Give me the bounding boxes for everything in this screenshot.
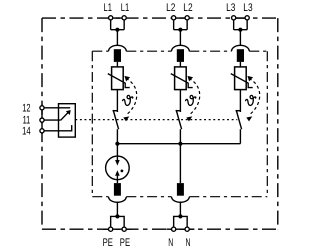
hop arc over L2 conductor on module top edge (172, 45, 190, 51)
switch S2 fixed contact tick (176, 110, 181, 112)
terminal L3 right circle (245, 16, 249, 20)
hop arc under PE conductor on module bottom edge (109, 197, 127, 203)
wire terminal 14 lead with contact riser (44, 125, 71, 131)
signalling contact box S4 (59, 104, 76, 137)
wire PE plug down to PE node (116, 202, 118, 217)
varistor R2 diagonal stroke (171, 74, 193, 88)
wire solid segment at terminals 12 11 14 (41, 105, 43, 135)
switch S4 changeover blade (61, 112, 69, 120)
terminal N right circle (185, 227, 189, 231)
svg-text:N: N (168, 237, 173, 249)
node bus junction dot at N path (178, 142, 182, 146)
label ϑ for L3 (246, 95, 256, 105)
wire PE terminal fork (111, 216, 125, 227)
terminal L1 left circle (109, 16, 113, 20)
label ϑ for L2 (186, 95, 196, 105)
terminal 11 circle (40, 118, 44, 122)
terminal PE right circle (122, 227, 126, 231)
spark gap F1 bottom electrode arrow (116, 176, 118, 180)
wire solid segment under L2 terminal pair (172, 17, 188, 19)
wire N path down from bus (179, 144, 181, 183)
svg-text:L1: L1 (121, 2, 129, 14)
thermal arc arrowhead at varistor R3 (247, 76, 253, 82)
switch S3 fixed contact tick (236, 110, 241, 112)
terminal L2 left circle (172, 16, 176, 20)
wire L2 down to module plug (179, 30, 181, 46)
wire terminal 12 lead (44, 107, 70, 109)
node L2 junction dot (178, 28, 182, 32)
node bus junction dot at L1 path (115, 142, 119, 146)
label ϑ for L1 (123, 95, 133, 105)
svg-text:L2: L2 (183, 2, 192, 14)
varistor R2 body (175, 67, 187, 90)
svg-text:12: 12 (22, 102, 30, 114)
wire N plug down to N node (179, 202, 181, 217)
outer device boundary right edge (277, 18, 279, 229)
hop arc over L1 conductor on module top edge (109, 45, 127, 51)
wire L3 down to module plug (239, 30, 241, 46)
wire switch S3 to bus (239, 129, 241, 144)
node N junction dot (178, 214, 182, 218)
wire varistor R2 to switch S2 (179, 90, 181, 112)
spark gap F1 top electrode arrow (116, 156, 118, 160)
switch S3 blade (236, 110, 241, 129)
svg-text:L1: L1 (104, 2, 112, 14)
varistor R1 body (112, 67, 124, 90)
wire L1 terminal stubs and crossbar (111, 20, 125, 30)
switch S2 blade (176, 110, 181, 129)
svg-text:PE: PE (120, 237, 130, 249)
inner module boundary right edge (266, 51, 268, 197)
mechanical linkage dotted line to thermal switches (75, 119, 237, 121)
spark gap F1 body circle (106, 156, 130, 180)
wire L1 down to module plug (116, 30, 118, 46)
inner module boundary bottom edge (92, 196, 267, 198)
inner module boundary top edge (92, 50, 267, 52)
wire plug to varistor R3 (239, 62, 241, 67)
outer device boundary bottom edge (42, 228, 278, 230)
wire solid segment under PE terminal pair (103, 228, 131, 230)
wire plug to varistor R2 (179, 62, 181, 67)
node PE junction dot (115, 214, 119, 218)
wire varistor R3 to switch S3 (239, 90, 241, 112)
thermal arc arrowhead at switch S2 (186, 116, 192, 121)
wire spark gap to PE plug (116, 180, 118, 183)
svg-text:N: N (185, 237, 190, 249)
plug contact K5 (N module plug, filled) (177, 183, 184, 196)
node L3 junction dot (238, 28, 242, 32)
wire solid segment under L1 terminal pair (109, 17, 125, 19)
outer device boundary top edge (42, 17, 278, 19)
varistor R3 body (235, 67, 247, 90)
switch S1 blade (113, 110, 118, 129)
svg-text:PE: PE (103, 237, 113, 249)
wire L2 terminal stubs and crossbar (174, 20, 188, 30)
inner module boundary left edge (91, 51, 93, 197)
switch S4 blade arrowhead (66, 110, 71, 115)
wire varistor R1 to switch S1 (116, 90, 118, 112)
wire bus down to spark gap F1 (116, 144, 118, 156)
plug contact K1 (L1 module plug, filled) (114, 49, 121, 62)
wire terminal 11 lead (44, 119, 60, 121)
svg-text:L2: L2 (166, 2, 175, 14)
varistor R3 diagonal stroke (231, 74, 253, 88)
svg-text:L3: L3 (243, 2, 252, 14)
plug contact K3 (L3 module plug, filled) (237, 49, 244, 62)
wire switch S1 to bus (116, 129, 118, 144)
wire N terminal fork (174, 216, 188, 227)
spark gap F1 gas dot (121, 170, 124, 173)
hop arc under N conductor on module bottom edge (172, 197, 190, 203)
thermal arc arrowhead at switch S3 (246, 116, 252, 121)
thermal arc arrowhead at switch S1 (123, 116, 129, 121)
thermal disconnect arc ϑ for L1 (dashed arrow) (126, 78, 137, 115)
plug contact K4 (PE module plug, filled) (114, 183, 121, 196)
wire common bus after varistors (117, 143, 240, 145)
hop arc over L3 conductor on module top edge (232, 45, 250, 51)
outer device boundary left edge (41, 18, 43, 229)
terminal N left circle (172, 227, 176, 231)
svg-text:L3: L3 (226, 2, 235, 14)
wire solid segment under N terminal pair (166, 228, 194, 230)
wire solid segment under L3 terminal pair (232, 17, 248, 19)
terminal L3 left circle (232, 16, 236, 20)
wire L3 terminal stubs and crossbar (234, 20, 248, 30)
thermal disconnect arc ϑ for L3 (dashed arrow) (249, 78, 260, 115)
thermal arc arrowhead at varistor R1 (124, 76, 130, 82)
terminal 12 circle (40, 106, 44, 110)
plug contact K2 (L2 module plug, filled) (177, 49, 184, 62)
node L1 junction dot (115, 28, 119, 32)
terminal L1 right circle (122, 16, 126, 20)
thermal disconnect arc ϑ for L2 (dashed arrow) (189, 78, 200, 115)
switch S1 fixed contact tick (113, 110, 118, 112)
terminal PE left circle (109, 227, 113, 231)
varistor R1 diagonal stroke (108, 74, 130, 88)
wire plug to varistor R1 (116, 62, 118, 67)
terminal 14 circle (40, 129, 44, 133)
svg-text:14: 14 (22, 125, 31, 137)
thermal arc arrowhead at varistor R2 (187, 76, 193, 82)
wire switch S2 to bus (179, 129, 181, 144)
terminal L2 right circle (185, 16, 189, 20)
